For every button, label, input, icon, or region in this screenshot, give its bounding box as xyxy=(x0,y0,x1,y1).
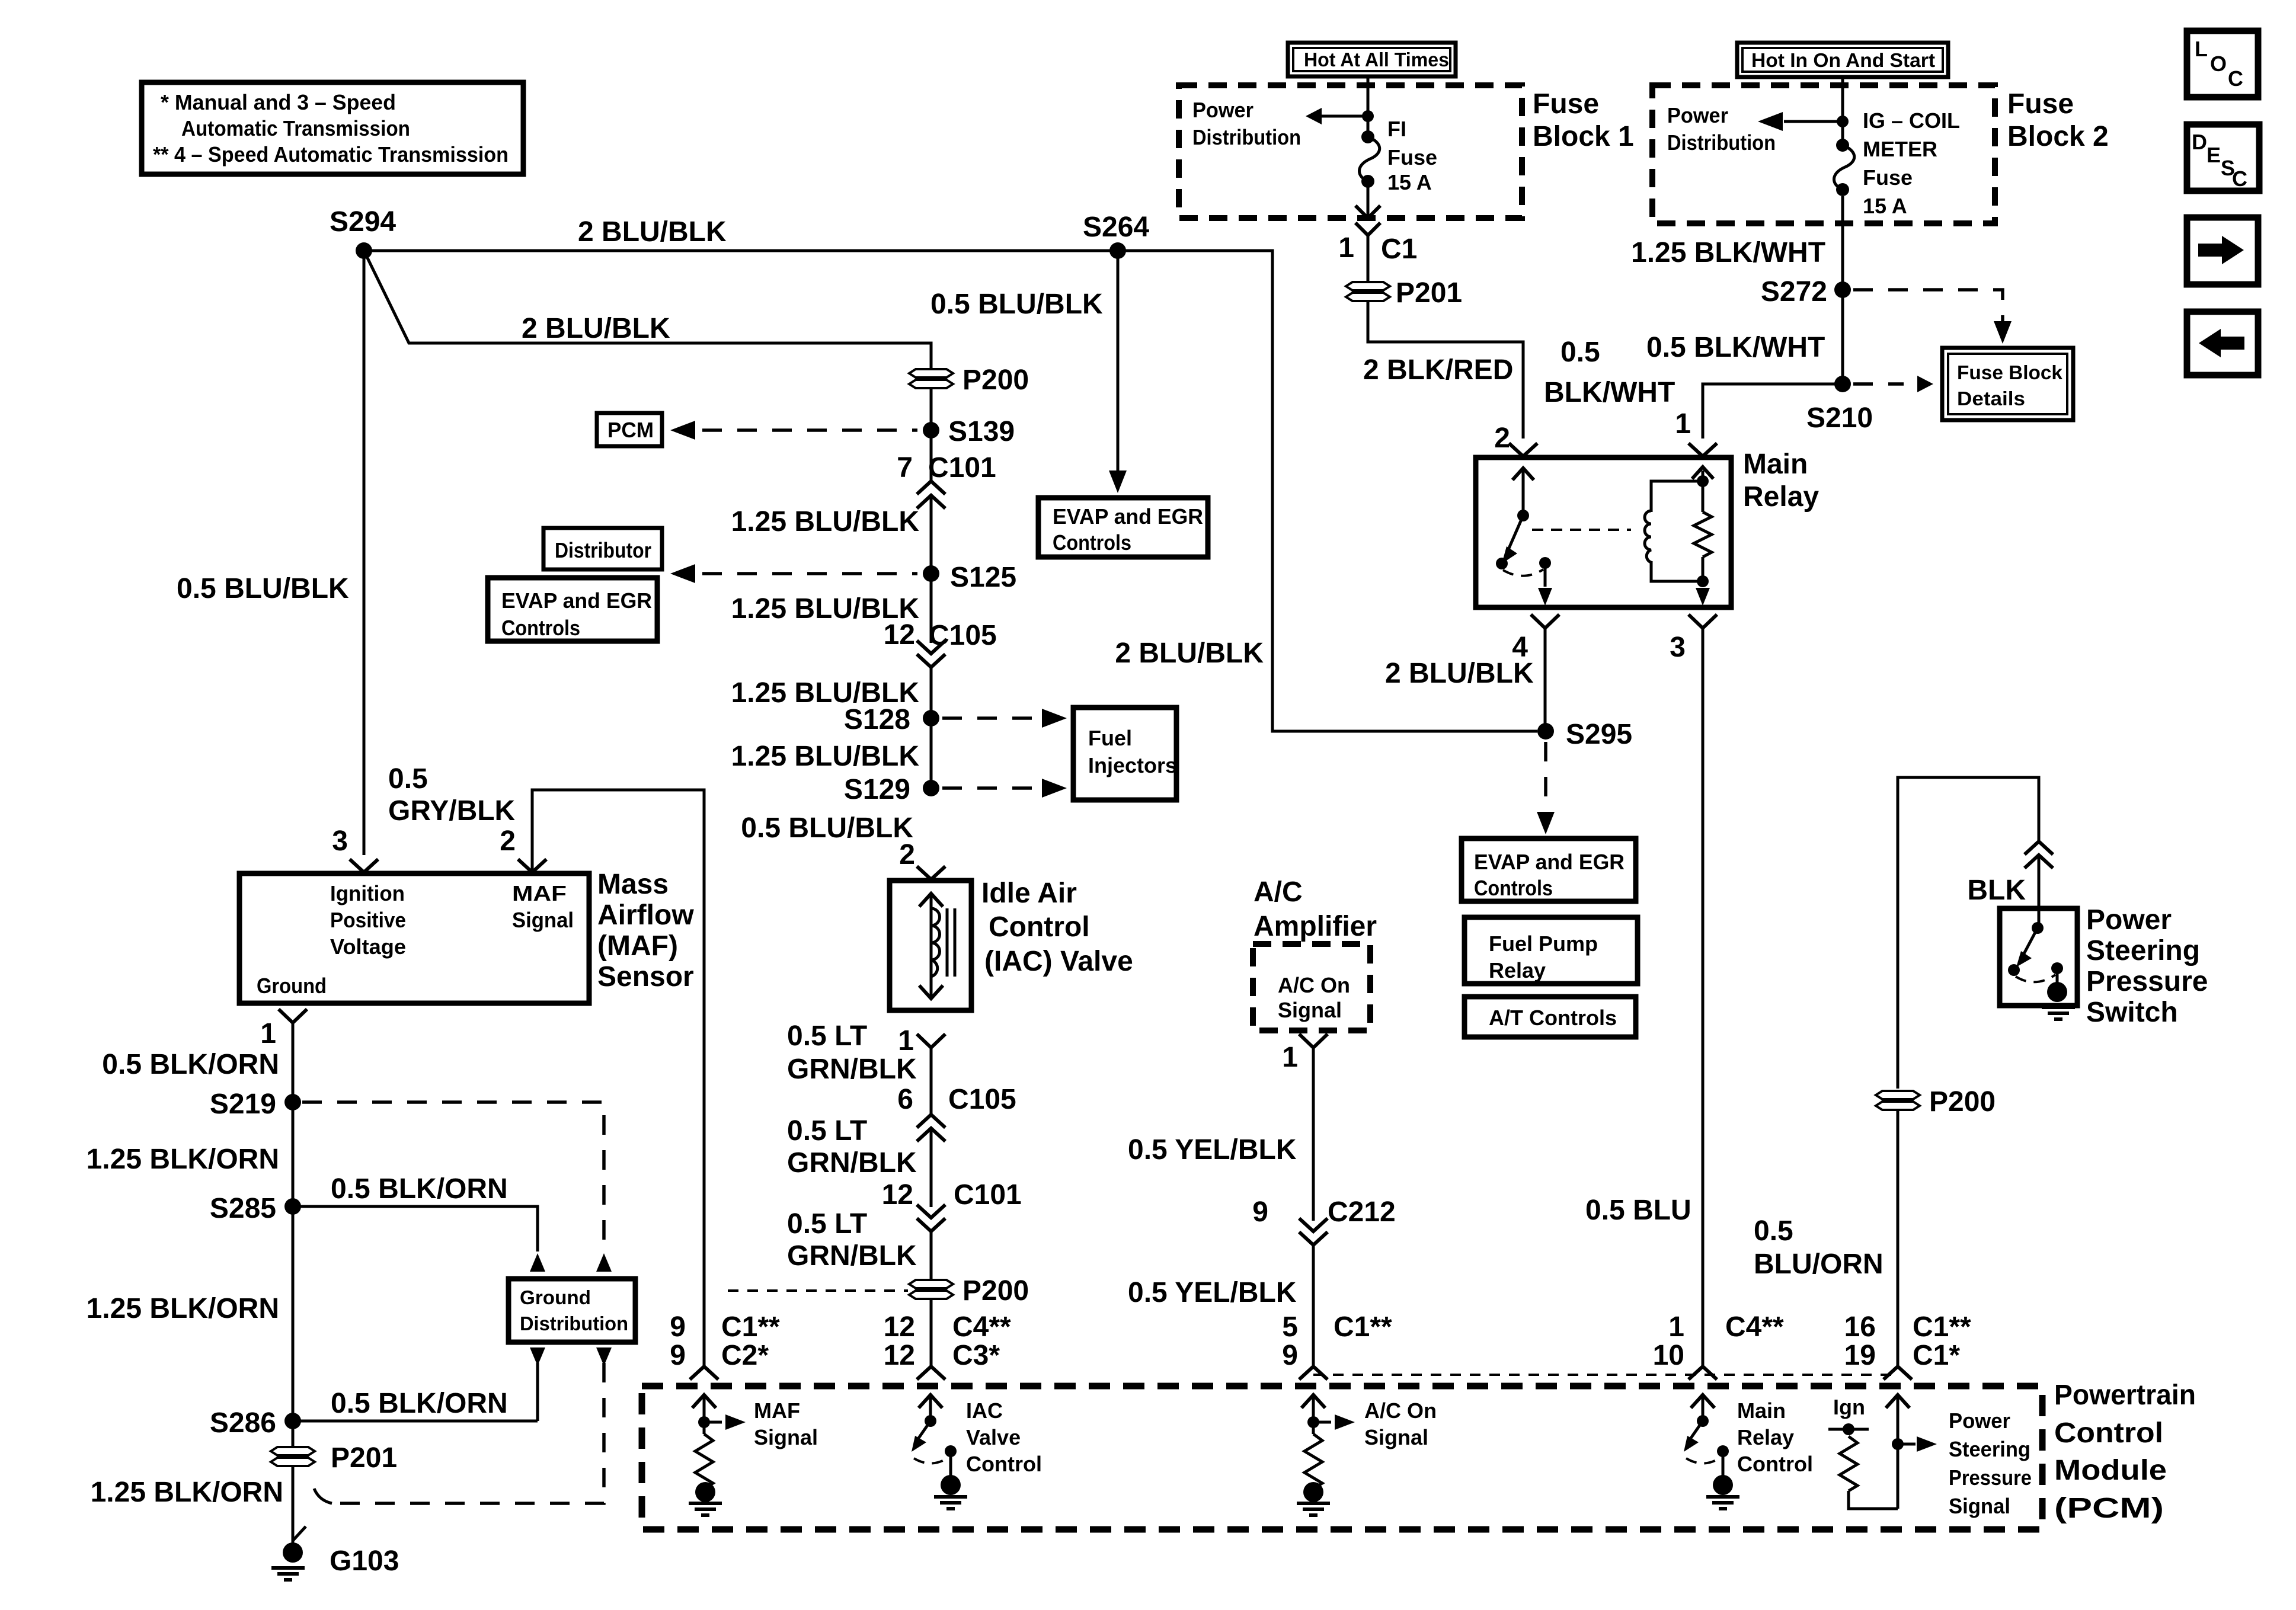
svg-text:0.5 BLK/ORN: 0.5 BLK/ORN xyxy=(331,1388,508,1419)
wire S294 down to MAF pin 3 (0.5 BLU/BLK) xyxy=(363,251,366,855)
svg-text:Switch: Switch xyxy=(2086,997,2178,1028)
svg-text:PCM: PCM xyxy=(607,418,654,442)
svg-text:Power: Power xyxy=(2086,904,2172,936)
svg-text:Controls: Controls xyxy=(1053,530,1131,555)
svg-text:1.25 BLU/BLK: 1.25 BLU/BLK xyxy=(731,506,920,537)
svg-text:G103: G103 xyxy=(330,1545,399,1577)
svg-text:S210: S210 xyxy=(1806,402,1873,434)
svg-text:Fuel Pump: Fuel Pump xyxy=(1489,932,1598,956)
connector chevron below IAC (pin 1) xyxy=(917,1034,945,1048)
power steering pressure switch loop wire xyxy=(1898,777,2039,1089)
svg-text:0.5 BLK/ORN: 0.5 BLK/ORN xyxy=(331,1173,508,1205)
ground G103 xyxy=(271,1526,399,1580)
arrow below box (S285 leg) xyxy=(530,1347,545,1366)
svg-text:1.25 BLU/BLK: 1.25 BLU/BLK xyxy=(731,741,920,772)
connector chevron PCM pin 16 (PS) xyxy=(1884,1366,1912,1379)
Fuel Pump Relay reference box xyxy=(1464,917,1638,984)
svg-text:10: 10 xyxy=(1653,1340,1684,1371)
svg-text:Voltage: Voltage xyxy=(330,934,406,959)
PCM internal: MAF signal input xyxy=(689,1395,818,1515)
svg-text:Steering: Steering xyxy=(2086,935,2200,966)
svg-text:C1**: C1** xyxy=(721,1311,780,1343)
note box (transmission footnotes) xyxy=(142,82,523,174)
svg-text:12: 12 xyxy=(884,1340,915,1371)
svg-text:1.25 BLK/WHT: 1.25 BLK/WHT xyxy=(1631,237,1825,268)
Hot In On And Start box xyxy=(1737,43,1948,77)
svg-text:Sensor: Sensor xyxy=(597,961,694,993)
svg-text:Relay: Relay xyxy=(1489,958,1546,982)
svg-text:(IAC) Valve: (IAC) Valve xyxy=(984,946,1133,977)
connector C101 chevrons (down) xyxy=(917,1205,945,1218)
connector chevron MAF pin 2 xyxy=(518,859,546,872)
svg-text:C: C xyxy=(2228,66,2243,91)
idle air control (IAC) valve box xyxy=(890,881,971,1010)
svg-text:C105: C105 xyxy=(948,1084,1016,1115)
svg-text:2 BLU/BLK: 2 BLU/BLK xyxy=(522,313,670,344)
connector C105 chevrons (up) xyxy=(917,1115,945,1128)
PCM internal: power steering pressure signal input xyxy=(1886,1395,2032,1518)
wire S294 to S264 (2 BLU/BLK) xyxy=(364,249,1118,252)
svg-text:A/C: A/C xyxy=(1253,876,1303,908)
node S139 junction xyxy=(923,422,939,438)
svg-text:1.25 BLK/ORN: 1.25 BLK/ORN xyxy=(91,1477,283,1508)
svg-text:Power: Power xyxy=(1949,1409,2010,1433)
node S294 junction xyxy=(356,242,372,259)
connector chevron below FB1 xyxy=(1355,223,1380,235)
connector chevrons (PS switch feed) xyxy=(2025,841,2053,854)
svg-text:S125: S125 xyxy=(950,562,1016,593)
svg-text:3: 3 xyxy=(332,825,348,857)
wire MAF ground chain down to G103 xyxy=(292,1023,295,1549)
relay switch (left side) xyxy=(1496,468,1552,606)
svg-text:0.5: 0.5 xyxy=(1754,1215,1793,1247)
svg-text:P200: P200 xyxy=(962,1275,1029,1307)
svg-text:Main: Main xyxy=(1737,1398,1786,1423)
svg-text:S219: S219 xyxy=(210,1089,276,1120)
svg-text:GRY/BLK: GRY/BLK xyxy=(388,795,516,827)
svg-text:GRN/BLK: GRN/BLK xyxy=(787,1147,917,1179)
arrow below box (S219 leg) xyxy=(596,1347,612,1366)
connector chevron PCM pin 5 (A/C) xyxy=(1299,1366,1328,1379)
wire fuse to FB1 border arrow xyxy=(1367,181,1370,218)
wire A/C to C212 xyxy=(1312,1048,1315,1221)
svg-text:0.5 LT: 0.5 LT xyxy=(787,1020,867,1052)
wire C105 to C101 xyxy=(930,1128,933,1207)
mass airflow (MAF) sensor box xyxy=(239,873,589,1003)
svg-text:S272: S272 xyxy=(1761,276,1827,308)
svg-text:** 4 – Speed Automatic Transmi: ** 4 – Speed Automatic Transmission xyxy=(153,142,509,167)
svg-text:1: 1 xyxy=(1282,1042,1298,1073)
svg-text:(MAF): (MAF) xyxy=(597,930,678,962)
dashed wire S272 to fuse block details xyxy=(1853,290,2003,321)
svg-text:0.5 BLU: 0.5 BLU xyxy=(1585,1195,1691,1226)
arrow (S285 leg into ground distribution) xyxy=(530,1253,545,1272)
dashed hook toward G103 xyxy=(314,1489,332,1503)
svg-text:Control: Control xyxy=(989,911,1090,943)
svg-text:Airflow: Airflow xyxy=(597,900,694,931)
svg-text:2: 2 xyxy=(899,839,915,870)
svg-text:Controls: Controls xyxy=(1474,876,1553,900)
svg-text:Module: Module xyxy=(2054,1455,2167,1486)
svg-text:12: 12 xyxy=(884,1311,915,1343)
main relay box xyxy=(1476,457,1731,607)
right-arrow nav box xyxy=(2187,217,2258,284)
PCM internal: IAC valve control driver xyxy=(912,1395,1042,1509)
svg-text:* Manual and 3 – Speed: * Manual and 3 – Speed xyxy=(161,90,396,114)
svg-text:Injectors: Injectors xyxy=(1088,753,1177,777)
dashed wire S139 to PCM box xyxy=(702,428,917,432)
svg-text:GRN/BLK: GRN/BLK xyxy=(787,1240,917,1272)
svg-text:9: 9 xyxy=(670,1311,686,1343)
svg-text:Idle Air: Idle Air xyxy=(981,878,1077,909)
svg-text:Ground: Ground xyxy=(257,974,327,998)
Fuel Injectors reference box xyxy=(1073,708,1177,800)
svg-text:P200: P200 xyxy=(1929,1086,1996,1118)
connector chevron relay pin 1 xyxy=(1689,443,1717,456)
connector P201 (power feed) xyxy=(1346,282,1390,301)
wire fuse to S272 (1.25 BLK/WHT) xyxy=(1841,196,1844,290)
connector C101 chevrons xyxy=(917,481,945,494)
svg-text:0.5 LT: 0.5 LT xyxy=(787,1208,867,1240)
connector chevron relay pin 4 xyxy=(1531,614,1559,628)
svg-text:E: E xyxy=(2207,143,2221,167)
svg-text:S285: S285 xyxy=(210,1193,276,1224)
svg-text:Fuse Block: Fuse Block xyxy=(1957,361,2063,383)
wire below box to S286 wire xyxy=(536,1363,539,1421)
node S264 junction xyxy=(1109,242,1126,259)
branch to power distribution (arrow left) xyxy=(1784,120,1843,123)
svg-text:5: 5 xyxy=(1282,1311,1298,1343)
dashed wire S125 to Distributor / EVAP boxes xyxy=(702,572,917,575)
svg-text:A/C On: A/C On xyxy=(1364,1398,1437,1423)
arrow (S219 leg into ground distribution) xyxy=(596,1253,612,1272)
node S286 junction xyxy=(284,1413,301,1429)
svg-text:Automatic Transmission: Automatic Transmission xyxy=(181,116,410,140)
Distributor reference box xyxy=(543,528,662,569)
wire C101 to P200 (IAC leg) xyxy=(930,1231,933,1366)
node S129 junction xyxy=(923,780,939,796)
svg-text:Main: Main xyxy=(1743,449,1808,480)
PCM internal: A/C on signal input xyxy=(1297,1395,1437,1515)
arrow into Distributor/EVAP boxes xyxy=(670,564,695,583)
svg-text:(PCM): (PCM) xyxy=(2054,1493,2164,1524)
svg-text:Distribution: Distribution xyxy=(1192,125,1301,149)
svg-text:15 A: 15 A xyxy=(1863,194,1907,218)
svg-text:Fuse: Fuse xyxy=(1387,145,1437,169)
svg-text:Powertrain: Powertrain xyxy=(2054,1379,2196,1411)
arrow into Fuel Injectors xyxy=(1042,709,1067,728)
A/T Controls reference box xyxy=(1464,997,1636,1037)
svg-text:S128: S128 xyxy=(844,704,910,735)
EVAP and EGR Controls reference box (left) xyxy=(488,578,657,641)
wire S286 to ground distribution (0.5 BLK/ORN) xyxy=(293,1420,538,1423)
connector chevron MAF pin 1 (ground) xyxy=(279,1009,307,1023)
svg-text:C: C xyxy=(2232,167,2247,191)
svg-text:9: 9 xyxy=(670,1340,686,1371)
svg-text:C1**: C1** xyxy=(1913,1311,1971,1343)
svg-text:EVAP and EGR: EVAP and EGR xyxy=(501,588,652,613)
fuse block 1 dashed box xyxy=(1179,85,1522,218)
FI fuse 15A xyxy=(1359,130,1379,188)
IG-COIL METER fuse 15A xyxy=(1834,139,1854,196)
svg-text:9: 9 xyxy=(1282,1340,1298,1371)
node S125 junction xyxy=(923,565,939,582)
wire P201 to main relay pin 2 (2 BLK/RED) xyxy=(1368,301,1523,438)
A/C Amplifier dashed box xyxy=(1253,944,1370,1030)
svg-text:C1**: C1** xyxy=(1334,1311,1392,1343)
svg-text:Control: Control xyxy=(2054,1417,2163,1449)
svg-text:Details: Details xyxy=(1957,388,2025,409)
svg-text:C4**: C4** xyxy=(952,1311,1011,1343)
left-arrow nav box xyxy=(2187,312,2258,375)
node S272 junction xyxy=(1834,281,1851,298)
svg-text:1: 1 xyxy=(1668,1311,1684,1343)
svg-text:IG – COIL: IG – COIL xyxy=(1863,108,1960,133)
wire S272 to S210 (0.5 BLK/WHT) xyxy=(1841,290,1844,384)
dashed wire S219 to ground distribution xyxy=(302,1102,604,1251)
svg-text:Steering: Steering xyxy=(1949,1437,2030,1461)
connector chevron relay pin 2 xyxy=(1509,443,1537,456)
svg-text:BLK: BLK xyxy=(1967,875,2026,906)
svg-text:Pressure: Pressure xyxy=(2086,966,2208,997)
dashed wire S295 down xyxy=(1544,742,1547,815)
connector chevron into IAC xyxy=(917,866,945,879)
connector chevron MAF pin 3 xyxy=(350,859,378,872)
svg-text:0.5 YEL/BLK: 0.5 YEL/BLK xyxy=(1128,1277,1297,1308)
svg-text:0.5 BLK/WHT: 0.5 BLK/WHT xyxy=(1646,332,1825,363)
arrow into fuse block details xyxy=(1917,376,1933,392)
wire MAF pin 2 signal to P200 (0.5 GRY/BLK) xyxy=(532,790,704,1366)
svg-text:Fuse: Fuse xyxy=(2007,88,2074,120)
connector chevron PCM pin 9 (MAF) xyxy=(690,1366,718,1379)
svg-text:2 BLU/BLK: 2 BLU/BLK xyxy=(1385,658,1534,689)
wire C101 to S125 xyxy=(930,495,933,643)
PCM dashed boundary box xyxy=(642,1386,2042,1529)
dashed link between P200 connectors xyxy=(728,1289,908,1292)
svg-text:Ignition: Ignition xyxy=(330,881,405,905)
wire S264 right then down to S295 (2 BLU/BLK) xyxy=(1118,251,1537,731)
svg-text:0.5: 0.5 xyxy=(1560,337,1600,368)
Hot At All Times box xyxy=(1288,43,1456,76)
svg-text:0.5 LT: 0.5 LT xyxy=(787,1115,867,1147)
EVAP and EGR Controls reference box (center) xyxy=(1038,498,1208,557)
svg-text:EVAP and EGR: EVAP and EGR xyxy=(1053,504,1203,529)
Fuse Block Details box xyxy=(1942,348,2073,420)
wire C212 to PCM pin 5 xyxy=(1312,1245,1315,1366)
wire relay pin 3 to PCM pin 1 (0.5 BLU) xyxy=(1702,628,1705,1366)
connector P200 (IAC leg) xyxy=(909,1280,953,1299)
wire hot feed down into FB2 xyxy=(1841,77,1844,145)
thin dashed connector line C1 xyxy=(1313,1374,1898,1376)
svg-text:EVAP and EGR: EVAP and EGR xyxy=(1474,850,1625,874)
svg-text:7: 7 xyxy=(897,452,913,484)
svg-text:15 A: 15 A xyxy=(1387,170,1432,194)
arrow into EVAP box (right) xyxy=(1537,812,1555,834)
svg-text:C101: C101 xyxy=(954,1179,1022,1211)
svg-text:Signal: Signal xyxy=(1949,1494,2010,1518)
arrow into PCM box xyxy=(670,421,695,440)
svg-text:1: 1 xyxy=(898,1025,914,1057)
wire S285 to ground distribution (0.5 BLK/ORN) xyxy=(293,1206,538,1251)
svg-text:C3*: C3* xyxy=(952,1340,1000,1371)
svg-text:S264: S264 xyxy=(1083,212,1149,243)
svg-text:C101: C101 xyxy=(928,452,996,484)
svg-text:S294: S294 xyxy=(330,206,396,238)
svg-text:0.5 BLU/BLK: 0.5 BLU/BLK xyxy=(930,289,1103,320)
wire C105 to S128 xyxy=(930,667,933,788)
dashed wire S129 to Fuel Injectors xyxy=(942,786,1040,790)
relay linkage dashed xyxy=(1532,529,1631,531)
svg-text:Controls: Controls xyxy=(501,616,580,640)
PCM internal: ignition pull-up xyxy=(1828,1395,1898,1509)
svg-text:Signal: Signal xyxy=(1278,998,1342,1022)
wire P200 to PCM pin 16 xyxy=(1897,1110,1900,1366)
svg-text:12: 12 xyxy=(882,1179,913,1211)
wire P200 to S139 xyxy=(930,389,933,480)
relay coil xyxy=(1645,481,1703,581)
svg-text:Ground: Ground xyxy=(520,1286,591,1308)
wire relay pin 4 to S295 (2 BLU/BLK) xyxy=(1544,628,1547,731)
svg-text:Control: Control xyxy=(966,1452,1042,1476)
wire S294 diagonal branch xyxy=(364,251,931,369)
svg-text:METER: METER xyxy=(1863,137,1937,161)
svg-text:2: 2 xyxy=(500,825,516,857)
wire hot feed down into FB1 xyxy=(1367,76,1370,137)
connector C212 chevrons (down) xyxy=(1299,1218,1328,1231)
svg-text:Fuse: Fuse xyxy=(1863,165,1913,190)
svg-text:2 BLK/RED: 2 BLK/RED xyxy=(1363,354,1513,386)
svg-text:Positive: Positive xyxy=(330,908,406,932)
svg-text:Fuel: Fuel xyxy=(1088,726,1132,750)
svg-text:Fuse: Fuse xyxy=(1533,88,1599,120)
node S210 junction xyxy=(1834,376,1851,392)
svg-text:GRN/BLK: GRN/BLK xyxy=(787,1054,917,1085)
svg-text:C212: C212 xyxy=(1328,1196,1396,1228)
svg-text:S295: S295 xyxy=(1566,719,1632,750)
svg-text:Power: Power xyxy=(1192,98,1253,122)
svg-text:6: 6 xyxy=(897,1084,913,1115)
svg-text:BLK/WHT: BLK/WHT xyxy=(1544,377,1675,408)
svg-text:A/T Controls: A/T Controls xyxy=(1489,1006,1617,1030)
svg-text:Hot In On And Start: Hot In On And Start xyxy=(1751,49,1935,71)
node S285 junction xyxy=(284,1198,301,1215)
relay coil resistor xyxy=(1692,467,1713,606)
svg-text:Signal: Signal xyxy=(1364,1425,1428,1449)
svg-text:C1*: C1* xyxy=(1913,1340,1960,1371)
svg-text:Signal: Signal xyxy=(512,908,574,932)
svg-text:0.5 BLU/BLK: 0.5 BLU/BLK xyxy=(741,812,913,844)
svg-text:BLU/ORN: BLU/ORN xyxy=(1754,1249,1884,1280)
svg-text:Power: Power xyxy=(1667,103,1728,127)
DESC nav box xyxy=(2187,124,2259,191)
svg-text:Control: Control xyxy=(1737,1452,1813,1476)
svg-text:Amplifier: Amplifier xyxy=(1253,911,1377,942)
fuse block 2 dashed box xyxy=(1652,85,1995,223)
svg-text:Valve: Valve xyxy=(966,1425,1021,1449)
LOC nav box xyxy=(2187,31,2258,97)
dashed wire S210 to fuse block details xyxy=(1853,382,1904,386)
svg-text:FI: FI xyxy=(1387,117,1406,141)
svg-text:3: 3 xyxy=(1670,632,1686,663)
connector C105 chevrons (down) xyxy=(917,641,945,654)
wire chevron to PS switch xyxy=(2038,855,2041,908)
PCM internal: main relay control driver xyxy=(1684,1395,1813,1509)
branch to power distribution (arrow left) xyxy=(1313,115,1368,118)
dashed wire S128 to Fuel Injectors xyxy=(942,716,1040,720)
svg-text:19: 19 xyxy=(1844,1340,1876,1371)
svg-text:C1: C1 xyxy=(1381,233,1417,265)
svg-text:Ign: Ign xyxy=(1833,1395,1865,1419)
svg-text:P200: P200 xyxy=(962,364,1029,396)
wire S264 down (0.5 BLU/BLK) xyxy=(1117,251,1120,471)
connector chevron relay pin 3 xyxy=(1689,614,1717,628)
svg-text:IAC: IAC xyxy=(966,1398,1003,1423)
svg-text:MAF: MAF xyxy=(754,1398,800,1423)
svg-text:L: L xyxy=(2195,37,2208,61)
svg-text:S129: S129 xyxy=(844,774,910,805)
svg-text:C4**: C4** xyxy=(1725,1311,1784,1343)
svg-text:0.5: 0.5 xyxy=(388,763,428,795)
svg-text:Relay: Relay xyxy=(1737,1425,1794,1449)
svg-text:Block 2: Block 2 xyxy=(2007,121,2109,152)
connector P200 (central line) xyxy=(909,369,953,388)
svg-text:0.5 BLU/BLK: 0.5 BLU/BLK xyxy=(177,573,349,604)
wire S210 to main relay pin 1 (0.5 BLK/WHT) xyxy=(1703,384,1843,438)
connector chevron PCM pin 1 (relay) xyxy=(1689,1366,1717,1379)
node S128 junction xyxy=(923,710,939,726)
svg-text:1: 1 xyxy=(260,1018,276,1049)
svg-text:9: 9 xyxy=(1252,1196,1268,1228)
wire C1 to P201 xyxy=(1367,235,1370,282)
svg-text:S286: S286 xyxy=(210,1407,276,1439)
svg-text:Mass: Mass xyxy=(597,869,669,900)
svg-text:Block 1: Block 1 xyxy=(1533,121,1634,152)
arrow into Fuel Injectors xyxy=(1042,779,1067,798)
svg-text:P201: P201 xyxy=(1396,277,1462,309)
svg-text:Signal: Signal xyxy=(754,1425,818,1449)
svg-text:0.5 BLK/ORN: 0.5 BLK/ORN xyxy=(102,1049,279,1080)
svg-text:Pressure: Pressure xyxy=(1949,1465,2032,1490)
arrow into fuse block details xyxy=(1994,321,2012,344)
wire IAC to C105 xyxy=(930,1048,933,1113)
connector chevron below A/C box (pin 1) xyxy=(1299,1034,1328,1048)
connector chevron PCM pin 12 (IAC) xyxy=(917,1366,945,1379)
power steering pressure switch box xyxy=(2000,908,2077,1006)
Ground Distribution reference box xyxy=(509,1279,635,1342)
connector P201 (ground leg) xyxy=(271,1447,315,1466)
svg-text:2 BLU/BLK: 2 BLU/BLK xyxy=(578,216,727,248)
svg-text:1: 1 xyxy=(1675,408,1691,440)
svg-text:2: 2 xyxy=(1494,422,1510,454)
svg-text:D: D xyxy=(2192,130,2207,154)
svg-text:0.5 YEL/BLK: 0.5 YEL/BLK xyxy=(1128,1134,1297,1166)
connector P200 (PS leg) xyxy=(1876,1091,1920,1110)
PCM reference box xyxy=(597,413,662,446)
svg-text:12: 12 xyxy=(884,619,915,651)
svg-text:Distribution: Distribution xyxy=(520,1313,628,1334)
PS switch contacts xyxy=(2008,908,2075,1019)
svg-text:O: O xyxy=(2210,52,2227,76)
node S295 junction xyxy=(1537,723,1554,740)
svg-text:Hot At All Times: Hot At All Times xyxy=(1304,49,1449,71)
svg-text:MAF: MAF xyxy=(512,881,567,905)
svg-text:Distributor: Distributor xyxy=(555,538,651,562)
svg-text:Relay: Relay xyxy=(1743,481,1819,513)
svg-text:P201: P201 xyxy=(331,1442,397,1474)
svg-text:16: 16 xyxy=(1844,1311,1876,1343)
EVAP and EGR Controls reference box (right) xyxy=(1462,838,1636,901)
svg-text:1.25 BLK/ORN: 1.25 BLK/ORN xyxy=(87,1144,279,1175)
